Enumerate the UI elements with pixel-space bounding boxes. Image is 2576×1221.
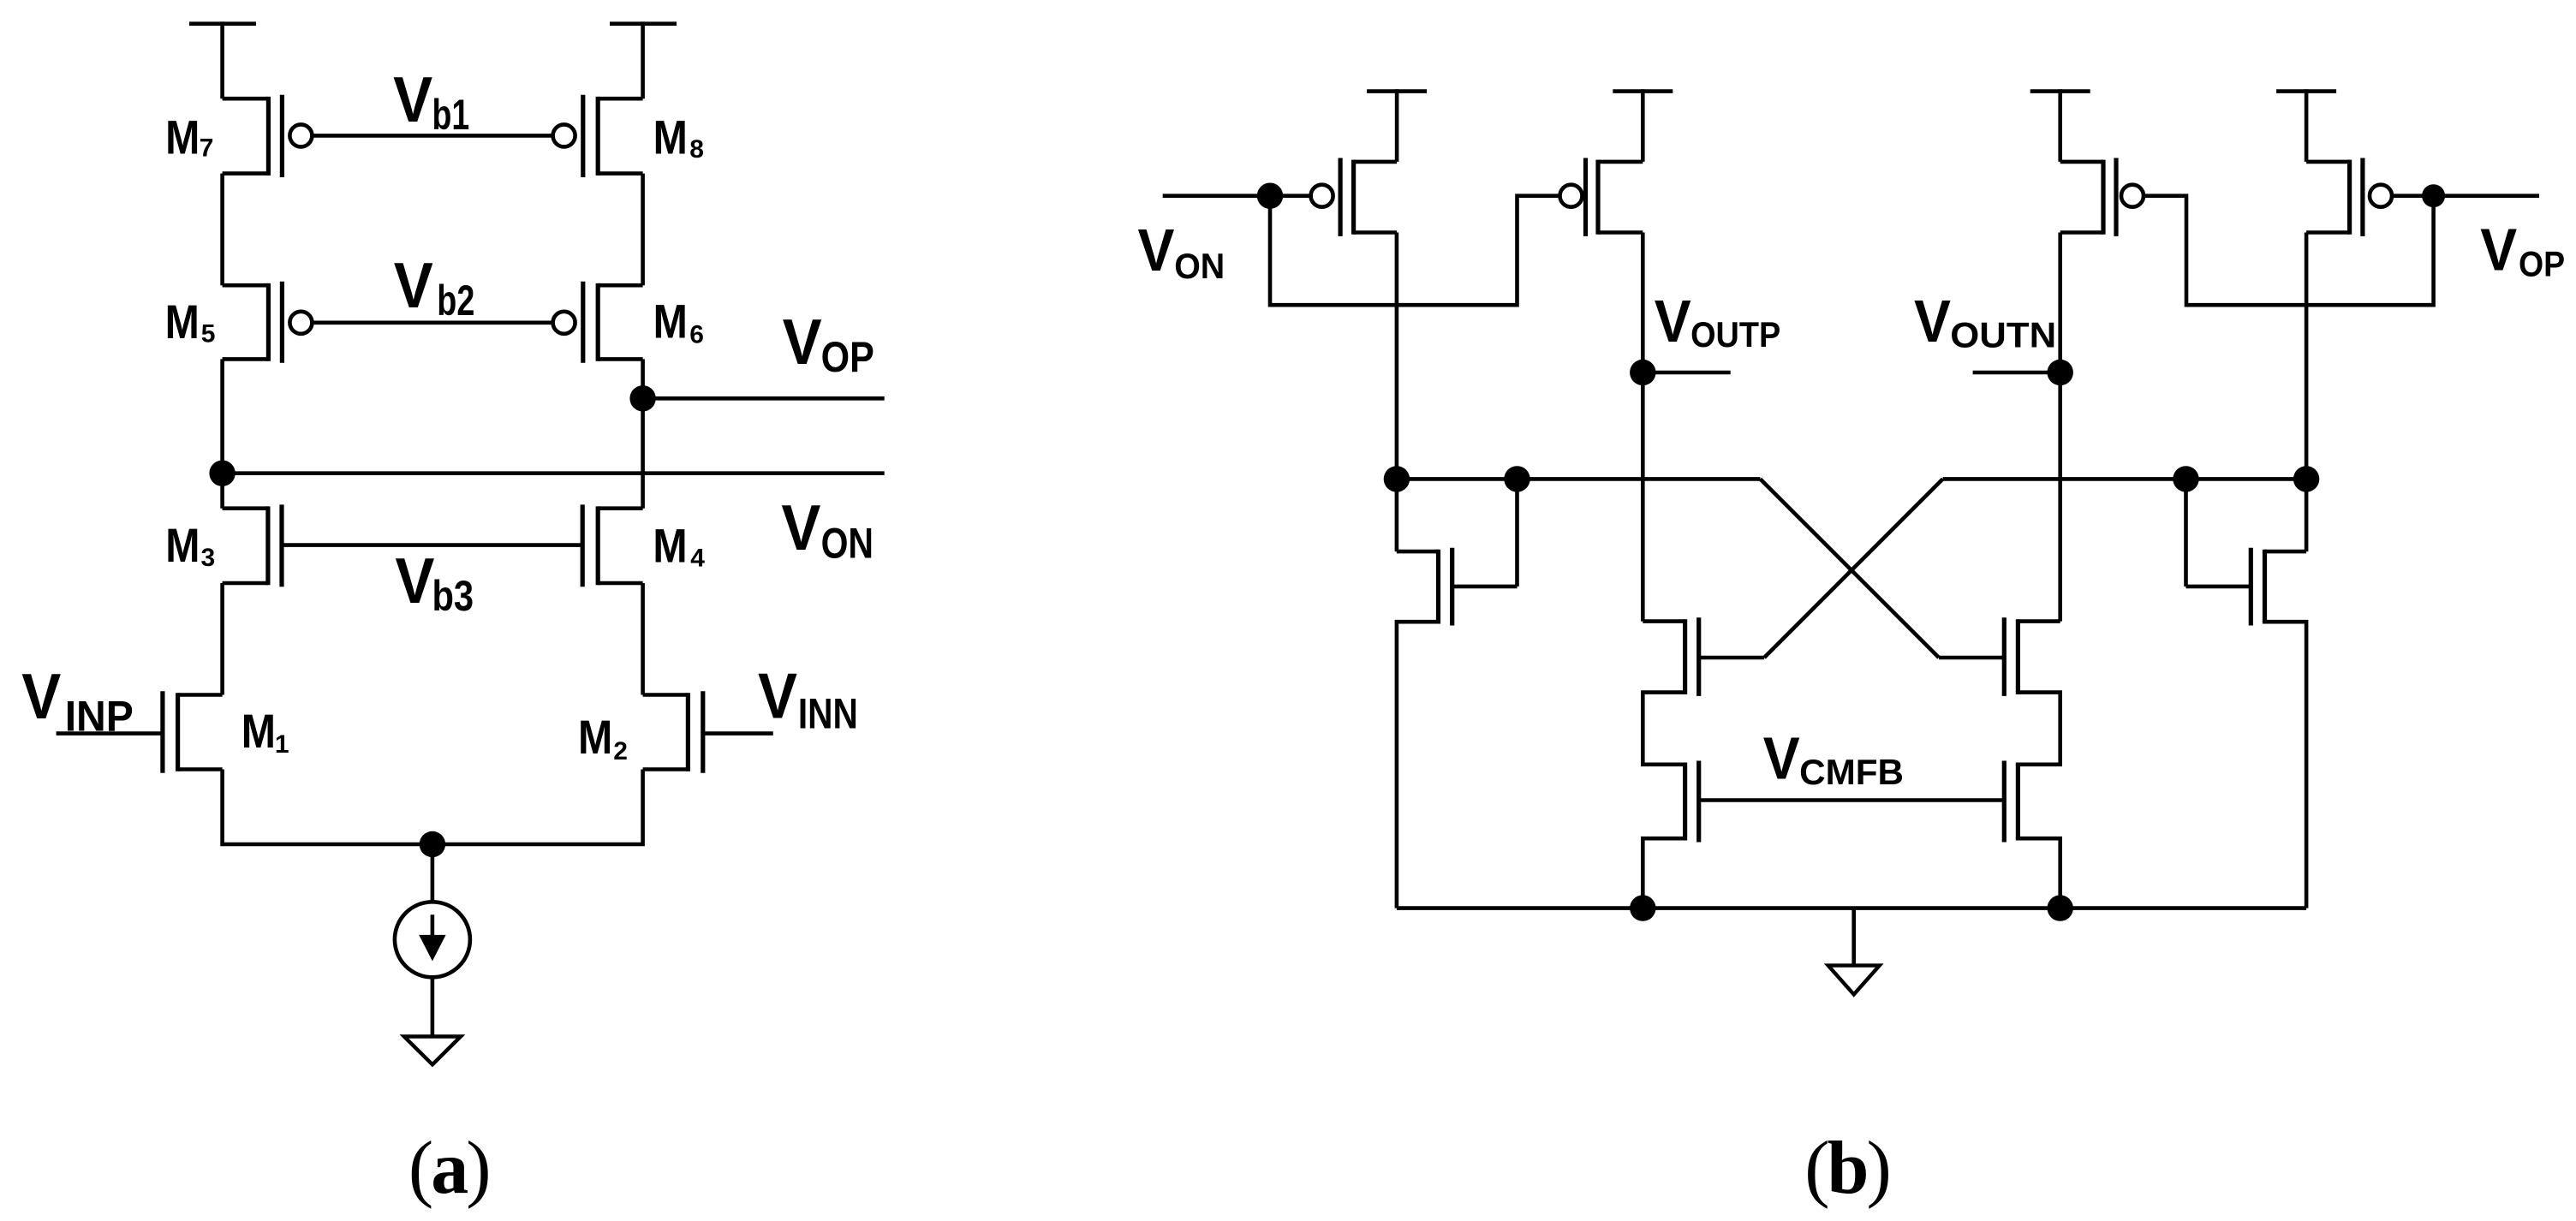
svg-text:OUTN: OUTN	[1950, 314, 2056, 354]
svg-text:OP: OP	[2519, 244, 2565, 284]
svg-text:M: M	[165, 520, 200, 573]
svg-text:3: 3	[201, 544, 216, 572]
svg-text:M: M	[165, 296, 200, 349]
svg-text:(a): (a)	[408, 1127, 489, 1210]
svg-text:OP: OP	[821, 333, 874, 381]
svg-text:V: V	[1763, 725, 1800, 792]
svg-text:V: V	[1138, 217, 1175, 284]
svg-text:M: M	[653, 295, 688, 348]
svg-text:V: V	[1914, 289, 1951, 355]
svg-text:M: M	[653, 520, 687, 573]
svg-text:M: M	[241, 706, 276, 759]
svg-text:8: 8	[689, 135, 704, 164]
svg-text:V: V	[781, 492, 820, 563]
svg-text:OUTP: OUTP	[1690, 314, 1780, 354]
svg-text:V: V	[21, 661, 61, 732]
svg-text:V: V	[758, 661, 797, 732]
svg-text:M: M	[165, 111, 200, 164]
svg-text:M: M	[653, 111, 688, 164]
svg-text:V: V	[393, 64, 432, 135]
svg-text:b2: b2	[437, 277, 474, 325]
svg-text:7: 7	[200, 134, 214, 163]
svg-text:4: 4	[690, 545, 705, 573]
svg-text:V: V	[783, 307, 822, 378]
svg-text:b3: b3	[432, 572, 474, 620]
svg-text:V: V	[395, 545, 434, 616]
svg-text:b1: b1	[432, 91, 470, 139]
svg-text:(b): (b)	[1804, 1127, 1889, 1210]
svg-text:INP: INP	[65, 693, 134, 741]
svg-text:ON: ON	[821, 519, 874, 567]
svg-text:2: 2	[613, 737, 628, 765]
svg-text:5: 5	[201, 319, 216, 348]
svg-text:M: M	[578, 712, 612, 765]
svg-text:CMFB: CMFB	[1799, 752, 1904, 792]
svg-text:V: V	[1655, 289, 1691, 355]
svg-text:INN: INN	[798, 689, 858, 737]
svg-text:V: V	[2480, 217, 2517, 283]
svg-text:ON: ON	[1174, 246, 1225, 286]
svg-text:V: V	[394, 250, 433, 321]
svg-text:6: 6	[689, 320, 704, 348]
svg-text:1: 1	[275, 730, 289, 759]
